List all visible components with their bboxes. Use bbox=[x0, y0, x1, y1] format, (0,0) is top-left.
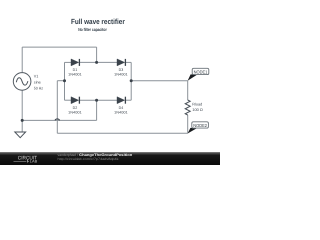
svg-text:http://circuitlab.com/c/7p74ad: http://circuitlab.com/c/7p74adv8dp4k bbox=[58, 157, 119, 161]
wire: source bottom lead bbox=[21, 90, 23, 120]
svg-text:V1: V1 bbox=[34, 75, 39, 79]
wire: bottom row D2 cathode to midpoint bbox=[79, 99, 96, 101]
wire: resistor bottom lead bbox=[187, 115, 189, 133]
diode D2 bbox=[71, 97, 79, 104]
diode D3 bbox=[117, 59, 125, 66]
junction: right rail to load bbox=[130, 79, 133, 82]
svg-text:sine: sine bbox=[34, 81, 41, 85]
wire: bottom row right segment bbox=[125, 99, 131, 101]
wire: drop to top-row midpoint bbox=[96, 47, 98, 62]
label D2 bbox=[68, 106, 82, 114]
node NODE1 flag bbox=[188, 68, 209, 81]
label D3 bbox=[114, 68, 128, 76]
label V1 bbox=[34, 75, 43, 91]
wire: DC negative drop (crosses bottom wire) bbox=[56, 81, 58, 134]
wire hop (crossover, no connection) bbox=[55, 119, 60, 121]
junction: top-row midpoint bbox=[95, 61, 98, 64]
svg-text:1N4001: 1N4001 bbox=[114, 110, 128, 114]
CircuitLab logo bbox=[14, 155, 38, 163]
wire: left rail tee to left bbox=[57, 80, 64, 82]
diode D4 bbox=[117, 97, 125, 104]
svg-text:NODE2: NODE2 bbox=[193, 123, 207, 128]
junction: left rail tee bbox=[63, 79, 66, 82]
svg-text:No filter capacitor: No filter capacitor bbox=[78, 27, 107, 32]
wire: bottom row left segment bbox=[65, 99, 72, 101]
svg-text:50 Hz: 50 Hz bbox=[34, 87, 43, 91]
svg-text:100 Ω: 100 Ω bbox=[192, 108, 203, 112]
wire: top row right segment bbox=[125, 61, 131, 63]
wire: source top lead up bbox=[21, 47, 23, 73]
footer credit line 1 bbox=[58, 153, 133, 157]
wire: bottom horizontal (source return) bbox=[22, 119, 96, 121]
ground bbox=[15, 132, 26, 138]
wire: load rail down to resistor bbox=[187, 81, 189, 100]
svg-text:LAB: LAB bbox=[30, 160, 38, 164]
junction: source return / ground bbox=[21, 119, 24, 122]
wire: top row left segment bbox=[65, 61, 72, 63]
wire: bottom return (NODE2 to DC negative) bbox=[57, 132, 187, 134]
svg-text:1N4001: 1N4001 bbox=[68, 110, 82, 114]
node NODE2 flag bbox=[188, 122, 209, 134]
label D4 bbox=[114, 106, 128, 114]
diode D1 bbox=[71, 59, 79, 66]
svg-text:NODE1: NODE1 bbox=[194, 70, 208, 75]
svg-text:1N4001: 1N4001 bbox=[114, 73, 128, 77]
resistor Rload bbox=[185, 100, 190, 115]
svg-text:1N4001: 1N4001 bbox=[68, 73, 82, 77]
wire: top row midpoint to D3 anode bbox=[97, 61, 118, 63]
voltage source V1 bbox=[13, 73, 31, 91]
wire: ground stem bbox=[21, 120, 23, 131]
wire: right rail bbox=[130, 62, 132, 100]
wire: bottom-row midpoint drop bbox=[96, 100, 98, 120]
wire: load top from right rail bbox=[131, 80, 188, 82]
junction: bottom-row midpoint bbox=[95, 99, 98, 102]
wire: top row D1 cathode to midpoint bbox=[79, 61, 96, 63]
wire: top horizontal bbox=[22, 46, 96, 48]
wire: bottom row midpoint to D4 anode bbox=[97, 99, 118, 101]
svg-text:Rload: Rload bbox=[192, 102, 202, 106]
wire: left rail bbox=[64, 62, 66, 100]
label Rload bbox=[192, 102, 203, 112]
footer bar bbox=[0, 152, 220, 165]
label D1 bbox=[68, 68, 82, 76]
svg-text:Full wave rectifier: Full wave rectifier bbox=[71, 17, 125, 26]
